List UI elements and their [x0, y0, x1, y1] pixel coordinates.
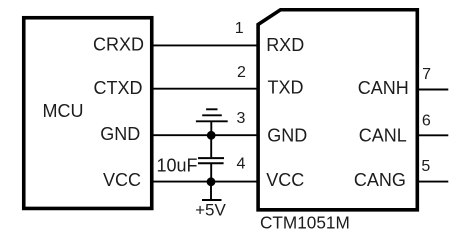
svg-text:5: 5	[421, 158, 430, 175]
capacitor C1	[198, 135, 224, 182]
wire GND net	[154, 134, 259, 136]
svg-text:6: 6	[422, 113, 431, 130]
svg-text:1: 1	[235, 20, 244, 37]
svg-text:CTM1051M: CTM1051M	[260, 213, 350, 229]
wire CTXD to TXD	[154, 88, 259, 90]
svg-text:MCU: MCU	[43, 101, 84, 121]
svg-text:CANL: CANL	[359, 125, 407, 145]
svg-text:2: 2	[237, 64, 246, 81]
transceiver U1 CTM1051M box	[258, 10, 417, 210]
svg-text:RXD: RXD	[266, 35, 304, 55]
svg-text:GND: GND	[100, 124, 140, 144]
wire CANH pin 7	[419, 89, 448, 91]
wire CRXD to RXD	[154, 44, 259, 46]
wire VCC net	[154, 181, 259, 183]
svg-text:VCC: VCC	[266, 170, 304, 190]
svg-text:CRXD: CRXD	[93, 34, 144, 54]
svg-text:TXD: TXD	[268, 78, 304, 98]
svg-text:CANG: CANG	[354, 170, 406, 190]
svg-text:7: 7	[422, 66, 431, 83]
wire CANG pin 5	[419, 181, 448, 183]
svg-text:CANH: CANH	[358, 78, 409, 98]
svg-text:GND: GND	[267, 125, 307, 145]
svg-text:+5V: +5V	[195, 201, 226, 220]
+5V terminal	[202, 182, 222, 200]
svg-text:CTXD: CTXD	[94, 78, 143, 98]
wire CANL pin 6	[419, 134, 448, 136]
svg-text:3: 3	[237, 110, 246, 127]
ground	[196, 109, 228, 135]
svg-text:VCC: VCC	[103, 170, 141, 190]
junction on GND net	[207, 131, 216, 140]
svg-text:4: 4	[237, 155, 246, 172]
MCU box	[24, 18, 152, 209]
svg-text:10uF: 10uF	[156, 155, 197, 175]
junction on VCC net	[207, 177, 216, 186]
